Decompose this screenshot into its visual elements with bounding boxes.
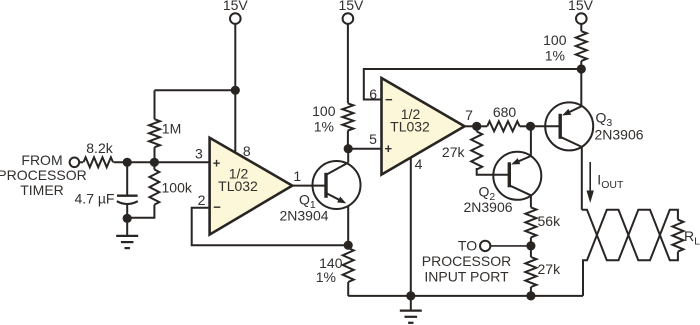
wire op-amp U2 pin 6 feedback to top rail [364, 69, 582, 100]
svg-text:1%: 1% [316, 269, 336, 285]
wire op-amp U2 pin 4 to ground rail [410, 158, 412, 296]
value label 100 1% [312, 103, 336, 135]
wire Q3 collector to load [581, 147, 583, 210]
node A (1M top / 15V rail junction) [231, 86, 240, 95]
node L (27k / bottom rail junction) [526, 291, 535, 300]
transistor Q2 2N3906 (PNP) [493, 152, 541, 200]
svg-text:3: 3 [195, 146, 203, 162]
load resistor RL (vertical) [672, 220, 683, 252]
svg-text:8.2k: 8.2k [86, 140, 113, 156]
transistor Q3 2N3906 (PNP) [545, 102, 593, 150]
op-amp U1 1/2 TL032 [210, 138, 293, 235]
resistor R8 27k (vertical, below pin 7) [471, 126, 509, 175]
wire node J to Q3 base [531, 125, 561, 127]
svg-text:15V: 15V [338, 0, 364, 13]
twisted-pair wire to load (upper conductor) [582, 210, 678, 260]
svg-text:2N3906: 2N3906 [595, 127, 644, 143]
svg-text:1: 1 [293, 168, 301, 184]
svg-text:27k: 27k [538, 261, 562, 277]
svg-text:2N3906: 2N3906 [463, 199, 512, 215]
wire Q3 emitter to node H [580, 69, 582, 106]
svg-text:2N3904: 2N3904 [279, 208, 328, 224]
resistor R7 680 (horizontal) [477, 121, 531, 131]
resistor R5 140 1% (vertical) [343, 245, 354, 296]
power terminal 15V (middle) [338, 0, 364, 24]
svg-text:1%: 1% [545, 48, 565, 64]
svg-text:−: − [385, 92, 393, 107]
input terminal FROM PROCESSOR TIMER [0, 152, 87, 198]
node G (ground junction on bottom rail) [406, 291, 415, 300]
resistor R4 100 1% (vertical, middle) [342, 24, 353, 149]
svg-text:RL: RL [684, 228, 700, 248]
svg-text:TIMER: TIMER [20, 182, 64, 198]
node C (1M/100k junction) [150, 158, 159, 167]
svg-text:IOUT: IOUT [597, 172, 624, 192]
svg-text:TL032: TL032 [218, 178, 258, 194]
svg-text:15V: 15V [568, 0, 594, 13]
svg-text:100: 100 [312, 103, 336, 119]
wire Q2 emitter to node J [530, 126, 532, 156]
svg-text:100: 100 [543, 32, 567, 48]
svg-text:27k: 27k [442, 144, 466, 160]
node B (capacitor junction) [123, 158, 132, 167]
svg-text:1%: 1% [314, 119, 334, 135]
svg-text:2: 2 [198, 192, 206, 208]
wire op-amp U1 pin 2 feedback loop [192, 208, 349, 245]
power terminal 15V (right) [568, 0, 594, 24]
node I (pin 7 output node) [472, 122, 481, 131]
svg-text:100k: 100k [162, 180, 193, 196]
svg-text:+: + [213, 156, 221, 171]
resistor R1 8.2k (horizontal) [79, 157, 113, 167]
ground G2 [400, 296, 422, 323]
svg-text:680: 680 [493, 104, 517, 120]
node F (emitter/feedback/R5 junction) [344, 241, 353, 250]
resistor R2 1M (vertical) [149, 90, 160, 162]
svg-text:PROCESSOR: PROCESSOR [422, 253, 511, 269]
wire op-amp U1 output to Q1 base [292, 185, 326, 187]
resistor R10 27k (vertical, bottom) [525, 246, 536, 296]
wire bottom rail [348, 295, 583, 297]
value label 100 1% (right) [543, 32, 567, 64]
transistor Q1 2N3904 (NPN) [313, 161, 361, 209]
svg-text:8: 8 [243, 143, 251, 159]
twisted-pair wire to load (lower conductor) [583, 210, 678, 296]
svg-text:5: 5 [369, 131, 377, 147]
node J (680 / Q2 emitter / Q3 base) [526, 122, 535, 131]
resistor R9 56k (vertical) [525, 207, 536, 246]
wire node A to resistor R2 1M top [155, 89, 236, 91]
svg-text:15V: 15V [223, 0, 249, 13]
op-amp U2 1/2 TL032 [382, 78, 465, 175]
svg-text:56k: 56k [538, 213, 562, 229]
node D (capacitor/100k/ground junction) [123, 214, 132, 223]
node K (56k / 27k / port junction) [526, 241, 535, 250]
wire Q1 collector to node E [347, 149, 349, 163]
wire 15V-left to op-amp U1 pin 8 [234, 24, 236, 153]
svg-text:FROM: FROM [21, 152, 62, 168]
svg-text:INPUT PORT: INPUT PORT [424, 268, 509, 284]
ground G1 [116, 218, 138, 248]
current arrow I-OUT [587, 162, 624, 203]
capacitor C1 4.7 uF (polarized) [117, 162, 138, 218]
svg-text:TL032: TL032 [390, 119, 430, 135]
value label 140 1% [316, 255, 343, 285]
wire node E to op-amp U2 pin 5 [348, 148, 381, 150]
svg-text:PROCESSOR: PROCESSOR [0, 167, 87, 183]
svg-text:4: 4 [415, 156, 423, 172]
wire input line to op-amp U1 pin 3 [114, 161, 210, 163]
power terminal 15V (left) [223, 0, 249, 24]
svg-text:7: 7 [465, 107, 473, 123]
svg-text:4.7 µF: 4.7 µF [75, 190, 115, 206]
svg-text:1M: 1M [162, 121, 181, 137]
svg-text:TO: TO [458, 238, 477, 254]
svg-text:−: − [213, 200, 221, 215]
resistor R6 100 1% (vertical, right) [576, 24, 587, 69]
node E (Q1 collector / R4 / pin 5) [344, 144, 353, 153]
terminal TO PROCESSOR INPUT PORT [422, 238, 531, 285]
svg-text:+: + [385, 141, 393, 156]
wire Q2 collector to 56k [530, 195, 532, 207]
wire Q1 emitter to node F [347, 206, 349, 246]
resistor R3 100k (vertical) [127, 162, 159, 217]
node H (R6 / top rail / Q3 emitter) [577, 64, 586, 73]
wire op-amp U2 output to node I [465, 125, 477, 127]
